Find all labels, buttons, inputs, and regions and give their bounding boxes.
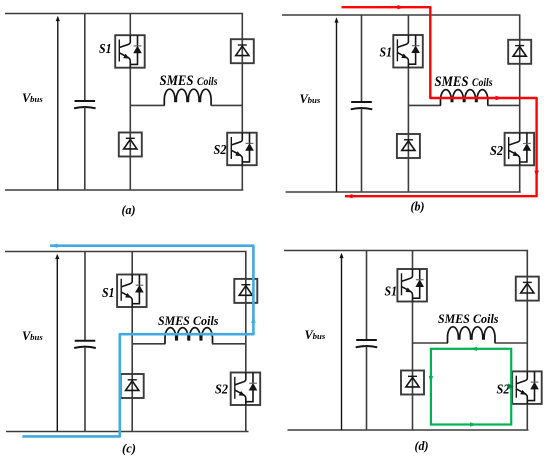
- svg-text:S1: S1: [385, 285, 398, 300]
- svg-text:SMES: SMES: [435, 74, 469, 90]
- svg-text:S2: S2: [490, 144, 503, 159]
- svg-text:bus: bus: [30, 332, 43, 342]
- svg-text:S2: S2: [497, 382, 510, 397]
- svg-text:bus: bus: [308, 95, 321, 105]
- svg-text:bus: bus: [30, 94, 43, 104]
- svg-text:SMES: SMES: [158, 314, 190, 328]
- svg-text:Coils: Coils: [197, 76, 218, 88]
- svg-text:S1: S1: [99, 42, 112, 57]
- svg-text:SMES: SMES: [438, 312, 470, 326]
- svg-text:SMES: SMES: [160, 73, 194, 89]
- svg-text:(b): (b): [411, 199, 425, 214]
- svg-text:Coils: Coils: [193, 314, 219, 328]
- svg-text:Coils: Coils: [472, 77, 493, 89]
- svg-text:Coils: Coils: [473, 312, 499, 326]
- svg-text:S1: S1: [380, 45, 393, 60]
- svg-text:bus: bus: [313, 331, 326, 341]
- svg-text:(c): (c): [122, 440, 136, 455]
- svg-text:(d): (d): [415, 438, 429, 453]
- svg-text:S1: S1: [102, 286, 115, 301]
- svg-text:S2: S2: [214, 143, 227, 158]
- svg-text:S2: S2: [215, 382, 228, 397]
- svg-text:(a): (a): [122, 202, 136, 217]
